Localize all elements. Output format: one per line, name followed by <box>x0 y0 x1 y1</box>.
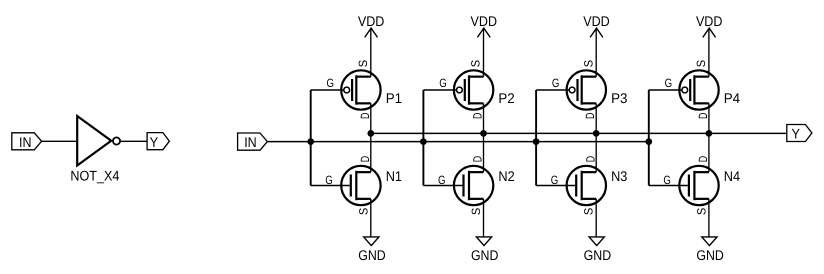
svg-text:N1: N1 <box>386 168 402 184</box>
wire gate vertical pair 3 <box>535 90 537 186</box>
svg-text:GND: GND <box>584 247 612 263</box>
label N2 pins G S D <box>438 156 485 216</box>
svg-text:G: G <box>552 76 560 90</box>
svg-text:P1: P1 <box>386 90 403 106</box>
ground GND symbol 1 <box>358 199 386 263</box>
wire IN to inverter input <box>42 140 78 142</box>
svg-text:G: G <box>551 173 559 187</box>
junction output net pair 1 <box>367 130 374 137</box>
svg-text:P4: P4 <box>724 90 741 106</box>
wire N2 drain from output net <box>483 133 485 172</box>
wire P2 gate stub <box>423 89 456 91</box>
wire P3 drain to output net <box>595 103 597 133</box>
wire P4 drain to output net <box>708 103 710 133</box>
svg-text:G: G <box>665 76 673 90</box>
wire P1 drain to output net <box>370 103 372 133</box>
junction output net pair 3 <box>593 130 600 137</box>
junction output net pair 4 <box>706 130 713 137</box>
wire gate vertical pair 4 <box>648 90 650 186</box>
power VDD symbol 4 <box>696 13 723 77</box>
transistor P3 (PMOS) body <box>567 70 606 109</box>
ground GND symbol 4 <box>696 199 724 263</box>
svg-text:P3: P3 <box>611 90 628 106</box>
svg-text:S: S <box>582 208 596 215</box>
svg-text:VDD: VDD <box>471 13 498 29</box>
svg-text:G: G <box>438 173 446 187</box>
transistor P2 (PMOS) body <box>454 70 493 109</box>
junction input net pair 3 <box>533 138 540 145</box>
svg-text:VDD: VDD <box>358 13 385 29</box>
label N1 pins G S D <box>325 156 372 216</box>
wire bubble to Y <box>121 140 147 142</box>
junction input net pair 2 <box>420 138 427 145</box>
ground GND symbol 3 <box>584 199 612 263</box>
svg-text:IN: IN <box>19 134 32 150</box>
svg-text:D: D <box>358 112 372 119</box>
wire input net bus <box>267 141 648 143</box>
svg-text:Y: Y <box>150 134 159 150</box>
svg-text:D: D <box>471 112 485 119</box>
label N3 pins G S D <box>551 156 598 216</box>
wire N4 drain from output net <box>708 133 710 172</box>
port Y (left) <box>147 133 169 150</box>
port Y (right) <box>787 125 812 142</box>
svg-text:D: D <box>471 156 485 163</box>
svg-text:D: D <box>583 112 597 119</box>
port IN (left) <box>12 133 42 150</box>
wire N1 drain from output net <box>370 133 372 172</box>
label N4 pins G S D <box>663 156 710 216</box>
inverter gate triangle NOT_X4 <box>77 116 111 166</box>
junction input net pair 1 <box>307 138 314 145</box>
wire N1 gate stub <box>311 185 350 187</box>
wire P3 gate stub <box>536 89 569 91</box>
svg-text:N4: N4 <box>724 168 740 184</box>
inverter output bubble <box>113 137 120 144</box>
svg-text:N3: N3 <box>611 168 627 184</box>
svg-text:D: D <box>696 156 710 163</box>
label P3 pins G S D <box>552 60 597 119</box>
svg-text:D: D <box>583 156 597 163</box>
svg-text:S: S <box>469 60 483 67</box>
junction input net pair 4 <box>645 138 652 145</box>
svg-text:S: S <box>356 208 370 215</box>
svg-text:VDD: VDD <box>583 13 610 29</box>
svg-text:D: D <box>696 112 710 119</box>
transistor N3 (NMOS) body <box>567 166 606 205</box>
wire N3 drain from output net <box>595 133 597 172</box>
svg-text:G: G <box>663 173 671 187</box>
svg-text:S: S <box>469 208 483 215</box>
svg-text:GND: GND <box>358 247 386 263</box>
svg-text:S: S <box>694 60 708 67</box>
wire output net bus to Y <box>371 132 787 134</box>
svg-text:G: G <box>439 76 447 90</box>
label P2 pins G S D <box>439 60 484 119</box>
transistor N1 (NMOS) body <box>341 166 380 205</box>
port IN (right) <box>238 133 268 150</box>
wire N2 gate stub <box>423 185 462 187</box>
label P4 pins G S D <box>665 60 710 119</box>
ground GND symbol 2 <box>471 199 499 263</box>
wire N4 gate stub <box>649 185 688 187</box>
junction output net pair 2 <box>480 130 487 137</box>
transistor P4 (PMOS) body <box>679 70 718 109</box>
power VDD symbol 1 <box>358 13 385 77</box>
power VDD symbol 2 <box>471 13 498 77</box>
svg-text:D: D <box>358 156 372 163</box>
svg-text:N2: N2 <box>498 168 514 184</box>
svg-text:S: S <box>694 208 708 215</box>
wire P4 gate stub <box>649 89 682 91</box>
svg-text:P2: P2 <box>498 90 515 106</box>
svg-text:VDD: VDD <box>696 13 723 29</box>
svg-text:Y: Y <box>791 125 800 141</box>
wire gate vertical pair 1 <box>310 90 312 186</box>
power VDD symbol 3 <box>583 13 610 77</box>
svg-text:G: G <box>325 173 333 187</box>
svg-text:GND: GND <box>696 247 724 263</box>
transistor P1 (PMOS) body <box>341 70 380 109</box>
svg-text:GND: GND <box>471 247 499 263</box>
svg-text:S: S <box>356 60 370 67</box>
wire P2 drain to output net <box>483 103 485 133</box>
label P1 pins G S D <box>327 60 372 119</box>
svg-text:NOT_X4: NOT_X4 <box>70 167 119 183</box>
wire P1 gate stub <box>311 89 344 91</box>
transistor N2 (NMOS) body <box>454 166 493 205</box>
svg-text:G: G <box>327 76 335 90</box>
wire N3 gate stub <box>536 185 575 187</box>
svg-text:IN: IN <box>244 134 257 150</box>
svg-text:S: S <box>581 60 595 67</box>
transistor N4 (NMOS) body <box>679 166 718 205</box>
wire gate vertical pair 2 <box>422 90 424 186</box>
